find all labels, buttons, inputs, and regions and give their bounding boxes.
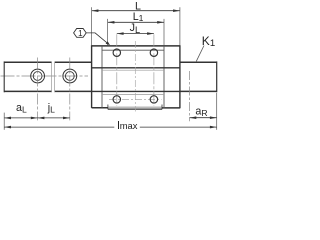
right hole centerline (aR reference)	[189, 71, 191, 121]
rail left segment	[4, 61, 91, 92]
rail break lines	[52, 62, 55, 93]
callout leader	[86, 33, 110, 45]
carriage body top line	[102, 49, 164, 51]
svg-text:1: 1	[78, 29, 83, 38]
rail right segment	[180, 61, 217, 92]
callout balloon 1	[74, 29, 87, 38]
dimension L1	[108, 19, 164, 46]
carriage bottom edges (stepped)	[92, 105, 180, 110]
dimension lmax	[4, 126, 217, 129]
svg-text:lmax: lmax	[117, 120, 138, 132]
svg-text:aR: aR	[195, 106, 207, 119]
carriage outline	[92, 45, 180, 108]
dimension L	[92, 7, 180, 45]
hole 1 centerline / extension line	[37, 58, 39, 121]
svg-text:jL: jL	[47, 102, 55, 115]
carriage end-cap boundary right	[163, 46, 165, 108]
bottom holes horizontal centerline	[109, 98, 162, 100]
rail hole 2 (counterbored)	[63, 69, 77, 83]
hole 2 centerline / extension line	[69, 58, 71, 121]
carriage lower thin feature line	[102, 94, 164, 96]
carriage rail-groove upper line	[92, 67, 180, 69]
carriage screw hole top-right	[150, 49, 157, 56]
JL extension / carriage hole centerline left	[116, 34, 118, 106]
carriage end-cap boundary left	[101, 46, 103, 108]
K1 leader	[196, 46, 204, 62]
carriage screw hole bottom-left	[113, 96, 120, 103]
dimension aL / jL	[4, 113, 70, 130]
carriage rail-groove upper thin line	[102, 69, 164, 71]
carriage rail-groove lower line	[92, 90, 180, 92]
rail centerline through mounting holes	[1, 75, 89, 77]
dimension aR	[190, 93, 217, 130]
carriage vertical centerline	[134, 41, 136, 112]
rail hole 1 (counterbored)	[31, 69, 45, 83]
JL extension / carriage hole centerline right	[153, 34, 155, 106]
svg-text:aL: aL	[16, 102, 27, 115]
dimension JL	[117, 32, 154, 35]
carriage screw hole bottom-right	[150, 96, 157, 103]
carriage screw hole top-left	[113, 49, 120, 56]
